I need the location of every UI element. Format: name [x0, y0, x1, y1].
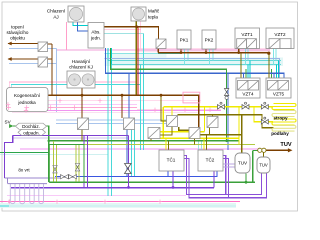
- wire magenta y=49.9: [57, 49, 271, 51]
- valve X under HX-B: [125, 164, 132, 174]
- svg-text:TUV: TUV: [280, 142, 291, 148]
- heating coil podlahy supply: [272, 119, 296, 125]
- svg-text:PK2: PK2: [205, 38, 214, 43]
- HX E: [189, 128, 200, 139]
- wire olive cluster e: [197, 115, 242, 153]
- wire cyan risers VZT2: [274, 49, 277, 65]
- wire olive stub under HX-E: [194, 138, 196, 144]
- boiler PK1: [177, 30, 191, 49]
- HX VZT1 b: [247, 39, 257, 49]
- wire cyan band line2 y=60.5: [108, 59, 281, 61]
- wire yellow stub x=238.9: [238, 107, 240, 144]
- wire brown topeni arrows lines: [8, 44, 38, 60]
- node green tank junction: [245, 181, 248, 184]
- wire magenta y=104.3: [12, 103, 137, 105]
- wire blue main from Abs jedn y=73.4: [106, 48, 285, 78]
- wire pale blue y=58.5 to VZT5: [105, 59, 280, 79]
- node maric junction: [135, 25, 138, 28]
- wire yellow vertical x=163.3: [162, 107, 164, 139]
- svg-text:topení: topení: [11, 25, 24, 30]
- svg-text:TUV: TUV: [259, 163, 268, 168]
- wire brown HX to PK main y=52.6: [158, 49, 269, 53]
- wire blue from Chlazeni AJ to Abs jedn: [78, 22, 88, 31]
- wire cyan verticals under HX-B: [132, 130, 135, 177]
- wire blue drop VZT4: [243, 73, 245, 78]
- HX VZT4 a: [238, 81, 249, 91]
- svg-text:VZT4: VZT4: [242, 92, 254, 97]
- svg-text:AJ: AJ: [53, 15, 58, 20]
- wire olive cluster d: [212, 115, 214, 117]
- wire olive cluster c: [179, 127, 189, 130]
- svg-text:VZT1: VZT1: [241, 32, 253, 37]
- fan circle Maric tepla: [133, 8, 145, 20]
- svg-text:stávajícího: stávajícího: [7, 30, 29, 35]
- HX F: [207, 117, 218, 128]
- node vzt1 junction: [237, 51, 240, 54]
- wire pink dashdot y=107.5: [8, 107, 137, 109]
- HX VZT2 a: [269, 39, 280, 49]
- wire lavender left bus: [5, 177, 61, 179]
- valve actuators: [220, 102, 222, 104]
- wire olive VZT4 riser: [240, 53, 242, 78]
- svg-text:jedn.: jedn.: [90, 36, 101, 41]
- wire yellow y=138.3: [160, 137, 239, 139]
- wire yellow branch podlahy: [254, 107, 273, 122]
- wire purple valve drop x=128.5: [128, 135, 130, 187]
- AHU VZT1: [235, 28, 260, 49]
- HX A mid: [78, 118, 89, 130]
- wire green bottom bus y=182.2: [49, 181, 255, 183]
- fan circle Chlazeni AJ: [69, 7, 82, 20]
- wire pink Abs to Maric y=29.8: [104, 29, 141, 31]
- heating coil stropy supply: [272, 104, 296, 110]
- svg-text:SV: SV: [5, 120, 12, 125]
- AHU VZT4: [236, 78, 260, 98]
- arrow topeni 1: [8, 42, 12, 46]
- wire purple TC2 join path2: [223, 159, 229, 198]
- wire lavender drop to loop header: [7, 178, 9, 184]
- node red kogen tick: [46, 94, 49, 97]
- wire cyan band line3 y=64.5: [112, 64, 282, 66]
- HX boiler loop: [156, 39, 166, 49]
- node havarijni junction: [81, 94, 84, 97]
- node vzt5 junction: [267, 52, 270, 55]
- pink cross markers: [6, 99, 212, 205]
- wire cyan kogen y=84.5: [11, 85, 140, 88]
- wire pink y=100.7: [12, 100, 201, 102]
- wire brown TUV supply arrow: [266, 149, 290, 151]
- wire blue drop x=228: [227, 73, 229, 150]
- wire chartreuse valve pair B: [76, 144, 79, 182]
- wire brown PK1 stub: [180, 49, 182, 53]
- wire purple TC1 to TUV2 path2: [184, 159, 267, 198]
- wire brown riser x=52: [51, 44, 53, 95]
- wire cyan y=154.3: [0, 153, 108, 155]
- wire cyan verticals under HX-E: [199, 141, 202, 150]
- wire olive stub TC1: [168, 141, 170, 150]
- loop 2: [20, 184, 25, 204]
- svg-text:8x vrt: 8x vrt: [18, 168, 30, 173]
- AHU VZT5: [266, 78, 291, 98]
- fan unit Maric tepla: [131, 7, 146, 21]
- wire brown HX-B drop: [121, 95, 123, 118]
- wire green drop VZT4: [245, 69, 247, 78]
- loop 4: [39, 184, 44, 204]
- HX VZT1 a: [237, 39, 247, 49]
- arrow SV: [9, 124, 13, 128]
- wire blue riser TC1: [167, 171, 169, 177]
- wire pale cyan Abs to riser y=33.5: [104, 33, 144, 35]
- wire green y=152.5: [0, 152, 49, 154]
- wire cyan drops from Abs jedn: [108, 48, 112, 65]
- wire brown HX-A drop: [81, 95, 83, 118]
- wire magenta y=110.5: [12, 110, 221, 112]
- wire blue HX-B to bottom bus: [126, 130, 128, 177]
- wire cyan long verticals mid: [141, 34, 144, 151]
- svg-text:stropy: stropy: [273, 116, 287, 121]
- wire cyan risers VZT1: [246, 49, 249, 65]
- ellipse Dochlaz odpadni: [16, 123, 47, 129]
- node green main junction: [225, 140, 228, 143]
- svg-text:Chlazení: Chlazení: [47, 9, 66, 14]
- wire chartreuse main y=144.3: [52, 143, 255, 145]
- wire cyan drops VZT5: [277, 60, 279, 78]
- wire lavender y=138: [13, 137, 128, 139]
- wire olive stub TC2: [206, 135, 208, 150]
- wire red riser: [137, 27, 139, 96]
- CHP Kogeneracni jednotka: [7, 88, 49, 112]
- pale pink heating band: [137, 49, 270, 53]
- wire magenta y=195.3: [7, 194, 186, 196]
- arrow TUV: [288, 148, 293, 152]
- wire olive pump to tank2: [263, 153, 265, 158]
- heat pump TC2: [198, 150, 223, 171]
- loop 1: [10, 184, 15, 204]
- wire blue drop VZT5: [273, 73, 275, 78]
- wire brown top main y=26.7: [104, 27, 159, 39]
- green manifold box: [49, 145, 84, 183]
- absorption unit box: [88, 23, 104, 49]
- fan unit Havarijni chlazeni KJ: [67, 71, 95, 88]
- wire green drop VZT5: [271, 69, 273, 78]
- AHU VZT2: [266, 28, 294, 49]
- wire purple riser TC1: [172, 171, 174, 187]
- wire yellow y=131.7: [148, 107, 205, 132]
- svg-text:Abs.: Abs.: [91, 30, 100, 35]
- node pink left junction: [8, 201, 10, 203]
- valve horizontal pair in green box: [61, 175, 69, 179]
- wire yellow riser TC1: [165, 138, 167, 150]
- HX D: [148, 128, 160, 139]
- heat pump TC1: [159, 150, 184, 171]
- HX topeni 1: [38, 42, 48, 52]
- fan unit Chlazeni AJ: [68, 6, 84, 22]
- wire lavender upper loop header: [8, 183, 47, 185]
- svg-text:Mařič: Mařič: [148, 9, 160, 14]
- wire cyan drops VZT4: [248, 60, 250, 78]
- wire chartreuse valve pair A: [54, 141, 57, 182]
- svg-text:PK1: PK1: [180, 38, 189, 43]
- svg-text:Kogenerační: Kogenerační: [14, 93, 41, 98]
- wire purple loop header y=187.4: [11, 187, 214, 189]
- valve green vertical: [224, 89, 228, 96]
- wire purple TC2 join path1: [223, 156, 226, 195]
- wire brown PK2 stub: [205, 49, 207, 53]
- wire olive below HX-A: [81, 130, 83, 141]
- svg-text:jednotka: jednotka: [17, 100, 36, 105]
- svg-text:TUV: TUV: [238, 161, 248, 166]
- HX VZT5 a: [268, 81, 279, 91]
- valve chartreuse A: [53, 166, 57, 173]
- wire lavender into tank1 lower: [223, 166, 235, 168]
- svg-text:TČ1: TČ1: [167, 157, 176, 163]
- node pk2 junction: [205, 51, 208, 54]
- TUV tank 2: [257, 157, 270, 173]
- svg-text:VZT5: VZT5: [273, 92, 285, 97]
- wire cyan band line1 y=55: [105, 53, 181, 55]
- wire pale blue return top-left: [9, 49, 57, 64]
- wire yellow stub to HX-C: [171, 107, 173, 116]
- pale cyan bottom band: [0, 203, 236, 208]
- wire lavender into tank1: [223, 163, 235, 165]
- node hxb junction: [121, 94, 124, 97]
- heat exchanger squares: [38, 39, 291, 139]
- svg-text:Dochláz.: Dochláz.: [22, 124, 40, 129]
- wire cyan risers PK2: [210, 49, 214, 65]
- wire pale pink y=112.3: [12, 111, 198, 113]
- junction dots: [81, 25, 271, 96]
- wire cyan bottom bright y=206: [0, 205, 9, 207]
- wire pink vertical from Chlazeni box: [66, 22, 68, 50]
- wire green SV: [13, 126, 49, 182]
- wire olive cluster a: [161, 95, 167, 121]
- HX VZT5 b: [278, 81, 289, 91]
- svg-text:tepla: tepla: [148, 15, 158, 20]
- wire pink vertical from Maric box: [140, 21, 142, 48]
- pale cyan corridor band: [105, 58, 284, 67]
- arrow topeni 2: [8, 57, 12, 61]
- svg-text:VZT2: VZT2: [274, 32, 286, 37]
- node pk1 junction: [180, 51, 183, 54]
- wire pink y=109.8: [137, 109, 221, 111]
- svg-text:chlazení KJ: chlazení KJ: [69, 65, 93, 70]
- wire magenta y=149: [20, 148, 262, 150]
- borehole loops: [10, 184, 43, 204]
- wire purple riser x=87.5: [87, 135, 89, 187]
- wire brown HX right to riser: [48, 44, 53, 59]
- loop 3: [30, 184, 35, 204]
- wire brown VZT1 stub: [238, 49, 240, 53]
- svg-text:podlahy: podlahy: [271, 131, 289, 136]
- node purple header junction 2: [172, 186, 175, 189]
- wire green main y=140.8: [49, 140, 239, 142]
- wire green from Abs jedn: [111, 48, 227, 141]
- wire purple riser TC2: [213, 171, 215, 187]
- wire purple left drop: [5, 135, 13, 177]
- HX C: [167, 116, 178, 127]
- boiler PK2: [202, 30, 216, 49]
- svg-text:objektu: objektu: [10, 36, 25, 41]
- pale cyan corridor band left part: [105, 53, 167, 58]
- HX VZT4 b: [248, 81, 259, 91]
- svg-text:TČ2: TČ2: [206, 157, 215, 163]
- wire pink vertical x=56.5: [56, 49, 58, 113]
- wire olive maric riser: [135, 21, 137, 95]
- node purple header junction 1: [127, 186, 130, 189]
- wire purple main y=135.4: [13, 134, 129, 136]
- wire green tank1 drop: [245, 174, 247, 183]
- HX B mid: [124, 118, 135, 130]
- svg-text:odpadn.: odpadn.: [23, 130, 40, 135]
- wire olive stub under HX-D: [150, 138, 152, 140]
- wire cyan L from Chlazeni AJ: [73, 22, 88, 26]
- pink empty rectangle: [183, 92, 200, 103]
- wire brown havarijni drop: [81, 88, 83, 95]
- wire pink top of band: [137, 48, 270, 50]
- wire blue drop to HX-B: [128, 73, 130, 118]
- wire pale blue pair into HX-C: [56, 120, 167, 124]
- TUV tank 1: [235, 153, 250, 173]
- wire pink bottom y=201: [0, 201, 240, 203]
- HX VZT2 b plain: [280, 39, 291, 49]
- wire green pump down: [252, 150, 254, 182]
- wire olive VZT5 riser: [268, 54, 270, 78]
- wire yellow main y=106.8: [163, 106, 273, 108]
- heating coil podlahy return: [272, 126, 296, 132]
- wire purple TC1 to TUV2 path1: [184, 156, 262, 195]
- lens odpadn: [18, 129, 46, 135]
- wire blue bottom bus: [55, 171, 217, 177]
- valve chartreuse B: [75, 164, 79, 171]
- node green sv junction: [48, 140, 51, 143]
- wire green pump inlet: [253, 149, 258, 151]
- wire pink kogen y=82: [9, 82, 137, 88]
- HX topeni 2: [38, 57, 48, 67]
- valve V1 on yellow main: [218, 102, 269, 124]
- wire brown main y=94.3: [46, 95, 199, 127]
- wire olive cluster b: [154, 127, 172, 136]
- wire purple riser x=84: [83, 135, 85, 187]
- svg-text:Havarijní: Havarijní: [72, 59, 91, 64]
- wire yellow riser TC2: [203, 138, 205, 150]
- wire cyan bottom pale y=206: [9, 205, 236, 207]
- wire cyan long verticals mid-left: [108, 61, 112, 197]
- heating coil stropy return: [272, 111, 296, 117]
- fan circles Havarijni: [69, 74, 81, 86]
- HX diagonals: [38, 42, 48, 52]
- wire cyan risers PK1: [185, 49, 189, 65]
- wire olive stropy return y=114.6: [178, 115, 274, 128]
- pump circles: [258, 148, 262, 152]
